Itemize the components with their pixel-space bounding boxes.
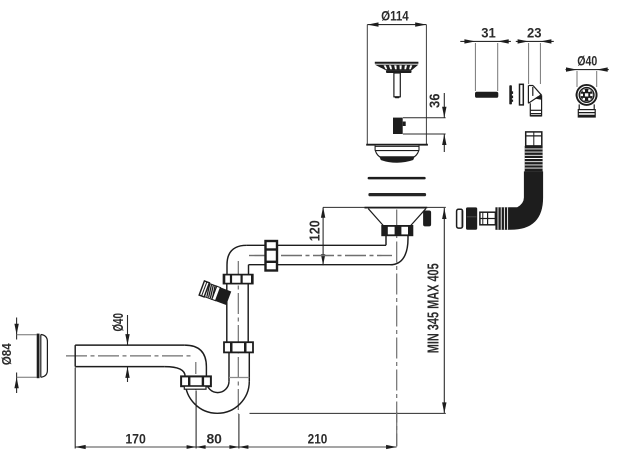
sink flange top line	[366, 144, 428, 146]
dimension 36 line with arrows	[443, 93, 445, 118]
hose end connector white	[480, 212, 496, 225]
outlet pipe top edge	[75, 344, 185, 346]
svg-text:120: 120	[306, 220, 323, 241]
centerline outlet pipe	[66, 355, 191, 357]
hose black nut	[466, 207, 477, 229]
dimension Ø40 (pipe) line with arrows	[127, 315, 129, 345]
dimension 120 leader top	[323, 206, 446, 208]
dimension 23 extension lines	[528, 43, 530, 84]
svg-text:210: 210	[308, 431, 328, 447]
centerline trap left leg	[195, 362, 197, 390]
strainer stem foot	[395, 96, 400, 98]
drain nut	[382, 226, 412, 235]
dimension MIN/MAX line with arrows	[443, 208, 445, 413]
dimension Ø40 (overflow) line	[566, 69, 609, 71]
dimension 120 line with arrows	[322, 207, 324, 265]
bottom extension lines	[74, 368, 76, 449]
dimension Ø114 extension line left	[366, 25, 368, 145]
sink flange cup black band	[379, 156, 415, 163]
dimension 36 leader bottom	[403, 133, 446, 135]
vertical pipe between nuts	[227, 284, 248, 343]
gasket 2	[368, 193, 426, 196]
wall flange	[38, 334, 47, 379]
drain body top line	[365, 207, 428, 209]
nut on upper run	[266, 241, 278, 271]
trap U outer arc	[185, 381, 249, 413]
overflow window tab	[403, 122, 406, 127]
trap left hub	[184, 386, 206, 389]
dimension Ø114 extension line right	[425, 25, 427, 145]
sink flange body	[375, 146, 419, 151]
nut below elbow	[224, 275, 253, 284]
strainer basket slots	[384, 65, 413, 69]
dimension 31 line	[460, 40, 511, 42]
upper-left elbow inner corner	[248, 265, 250, 275]
strainer stem	[394, 73, 400, 97]
strainer basket base	[386, 70, 412, 73]
centerline trap right leg	[237, 261, 239, 414]
trap bottom reference line	[250, 412, 446, 414]
outlet elbow inner	[165, 367, 185, 377]
upper-left elbow outer curve	[227, 245, 247, 274]
bottom dimension line 170/80/210	[75, 446, 396, 448]
svg-text:Ø114: Ø114	[381, 7, 409, 23]
gasket 1	[368, 177, 426, 180]
dimension 31 extension lines	[474, 43, 476, 91]
svg-text:23: 23	[527, 25, 542, 41]
overflow elbow side view	[528, 86, 541, 117]
overflow elbow black triangle	[535, 94, 541, 100]
dimension 23 line	[516, 40, 554, 42]
curved gasket	[509, 85, 513, 104]
drain body funnel	[368, 209, 426, 226]
centerline upper run	[249, 255, 392, 257]
svg-text:36: 36	[426, 94, 443, 109]
svg-text:Ø40: Ø40	[577, 52, 597, 68]
trap right leg	[229, 352, 249, 381]
hose top nut	[526, 132, 542, 146]
extension line 210 lower solid	[396, 412, 398, 447]
svg-text:Ø84: Ø84	[0, 343, 14, 366]
overflow front view inner ring	[579, 88, 594, 103]
overflow cover plate (side, black bar)	[475, 92, 498, 98]
trap left nut	[181, 376, 211, 386]
overflow elbow bottom band	[530, 115, 541, 117]
sink flange cup	[375, 151, 419, 158]
svg-text:MIN 345 MAX 405: MIN 345 MAX 405	[426, 263, 443, 353]
trap U inner arc	[206, 381, 229, 392]
dimension Ø84 leaders	[17, 334, 37, 336]
strainer basket rim	[375, 62, 419, 64]
svg-text:Ø40: Ø40	[110, 313, 127, 332]
overflow front view body below	[578, 104, 595, 117]
overflow front view side tabs	[576, 93, 578, 96]
dimension Ø84 line with arrows	[16, 318, 18, 340]
corrugated branch connector	[199, 281, 231, 305]
upper horizontal run bottom edge	[249, 264, 393, 266]
upper horizontal run top edge	[247, 244, 386, 246]
dimension Ø114 line	[367, 24, 426, 26]
drain tailpipe and right elbow of upper run	[386, 235, 408, 264]
overflow window (black rect)	[393, 118, 403, 134]
svg-text:80: 80	[206, 431, 222, 447]
trap right leg seam	[229, 377, 249, 379]
centerline drain vertical	[396, 210, 398, 447]
outlet pipe left end	[74, 345, 76, 367]
svg-text:170: 170	[125, 431, 146, 447]
strainer basket cone	[375, 65, 419, 71]
dimension 36 leader top	[403, 117, 446, 119]
hose elbow black body	[509, 171, 543, 229]
nut above right leg	[224, 342, 253, 352]
overflow front view outer circle	[577, 85, 597, 105]
flat gasket	[520, 84, 524, 105]
hose white cap	[457, 209, 463, 228]
hose corrugated vertical section	[525, 146, 543, 172]
hose corrugated horizontal section	[495, 207, 509, 230]
svg-text:31: 31	[481, 25, 496, 41]
outlet pipe bottom edge	[75, 366, 165, 368]
dimension Ø40 (overflow) extension lines	[576, 71, 578, 87]
overflow front view grille	[580, 89, 592, 101]
outlet elbow outer	[185, 345, 207, 376]
drain side outlet (black)	[423, 211, 431, 227]
